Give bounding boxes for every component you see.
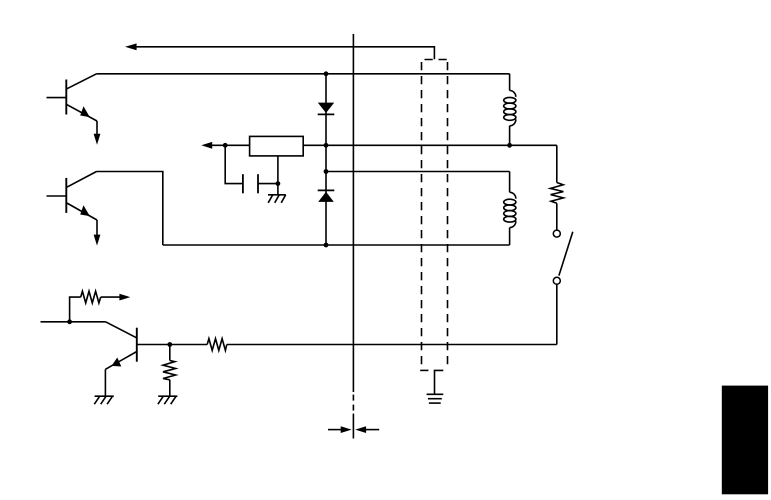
transistor Q2 — [47, 172, 98, 221]
wire: middle wire to switch branch — [556, 145, 558, 182]
wire: input to Q3 — [41, 321, 106, 323]
transistor Q3 — [105, 322, 136, 370]
capacitor C1 — [243, 174, 278, 193]
wire: R1 to switch — [556, 203, 558, 230]
wire: middle horizontal (box output, with left arrow) — [201, 142, 557, 149]
resistor R4 (bias) — [81, 291, 101, 303]
wire: Q3 emitter to ground — [104, 369, 106, 396]
wire: switch to bottom return — [556, 284, 558, 344]
arrow: Q2 emitter output — [94, 220, 101, 246]
wire: Q1 collector to L1 (top horizontal) — [97, 73, 510, 75]
node: bias branch — [67, 319, 72, 324]
node: L1 / middle wire — [507, 143, 512, 148]
wire: branch down to capacitor — [225, 145, 242, 183]
resistor R2 (series, base) — [207, 339, 227, 351]
node: middle wire / diode column — [324, 143, 329, 148]
inductor L1 — [504, 74, 516, 146]
thumb tab (black index block) — [722, 386, 768, 495]
dimension arrow right — [355, 426, 379, 433]
ground (Q3 emitter) — [94, 396, 114, 404]
diode D2 — [318, 190, 335, 202]
node: branch to capacitor — [223, 143, 228, 148]
center line (panel boundary) — [352, 34, 354, 439]
relay box U1 — [250, 136, 304, 156]
wire: shield drain — [435, 370, 444, 394]
transistor Q1 — [47, 74, 98, 121]
arrow: Q1 emitter output — [94, 121, 101, 145]
node: bottom wire / diode column — [324, 243, 329, 248]
cable shield (dashed) — [420, 60, 448, 371]
node: R3 branch — [167, 342, 172, 347]
diode D1 — [318, 103, 335, 115]
wire: Q2 collector route — [97, 172, 163, 246]
arrow: bias output — [101, 294, 131, 301]
wire: box ground pin — [277, 156, 279, 195]
resistor R1 (termination) — [550, 183, 563, 204]
node: diode column top — [324, 71, 329, 76]
wire: lower horizontal to L2 — [163, 244, 510, 246]
node: wire3 / diode column — [324, 169, 329, 174]
switch S1 — [553, 230, 573, 284]
wire: junction to L2 (third horizontal) — [326, 171, 510, 173]
ground (box/capacitor) — [268, 195, 286, 203]
resistor R3 (to ground) — [163, 345, 176, 397]
ground (R3) — [158, 396, 178, 404]
wire: feedback line to cable shield (with left arrow) — [125, 43, 434, 59]
earth ground (shield) — [427, 394, 444, 403]
wire: bottom return horizontal — [227, 344, 557, 346]
wire: Q3 base to R2 — [137, 344, 207, 346]
node: capacitor to ground pin — [276, 181, 281, 186]
inductor L2 — [504, 172, 516, 246]
wire: bias branch up — [70, 297, 81, 322]
dimension arrow left — [328, 426, 352, 433]
wire: diode column — [325, 74, 327, 245]
